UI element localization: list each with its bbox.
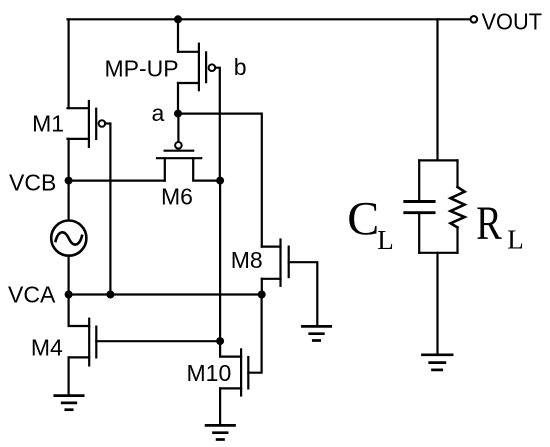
M6 drain stub — [193, 158, 220, 180]
wire M4 gate to M10 drain node — [96, 340, 220, 342]
svg-text:VOUT: VOUT — [482, 9, 543, 35]
svg-text:MP-UP: MP-UP — [105, 56, 179, 82]
svg-text:M6: M6 — [161, 184, 193, 210]
wire resistor bottom lead — [456, 228, 458, 253]
svg-text:VCA: VCA — [8, 282, 56, 308]
wire VCA down to M4 drain — [69, 295, 90, 327]
node dot M1 gate on VCA — [106, 291, 114, 299]
M4 gate bar — [95, 327, 97, 358]
transistor M6 (PMOS, horizontal) — [157, 142, 220, 181]
wire M10 source to ground — [219, 388, 221, 425]
wire VCB line to M6 source — [69, 180, 165, 182]
wire MP-UP source to node a — [177, 83, 179, 114]
M6 gate bubble — [175, 142, 182, 149]
M8 drain stub — [262, 246, 281, 248]
M6 channel bar — [157, 157, 201, 159]
wire AC source to VCA — [67, 257, 69, 295]
wire MP-UP drain from rail — [177, 19, 179, 52]
wire M1 drain to rail — [67, 19, 69, 108]
wire load to ground — [436, 253, 438, 355]
wire top supply rail — [68, 18, 471, 20]
wire M1 source down to VCB — [67, 139, 69, 181]
resistor RL — [451, 187, 465, 228]
M8 gate bar — [288, 247, 290, 278]
wire M1 gate to VCA — [105, 124, 110, 295]
wire M8 source to VCA — [261, 279, 263, 295]
AC voltage source — [51, 221, 86, 256]
wire node a to M6 gate bubble — [177, 114, 179, 142]
svg-text:C: C — [347, 193, 379, 246]
svg-text:R: R — [476, 197, 502, 250]
svg-text:L: L — [377, 225, 394, 255]
wire resistor top lead — [456, 160, 458, 187]
svg-text:L: L — [507, 225, 524, 255]
wire M8 gate to ground — [289, 262, 318, 326]
M10 gate bar — [247, 357, 249, 388]
transistor M8 (NMOS) — [262, 240, 289, 286]
wire capacitor top lead — [418, 160, 420, 200]
wire MP-UP gate (node b) down — [215, 68, 220, 181]
M6 gate bar — [165, 150, 194, 152]
MP-UP channel bar — [198, 44, 200, 90]
M8 channel bar — [279, 240, 281, 286]
transistor M1 (PMOS) — [68, 101, 106, 147]
node VCA dot — [65, 291, 73, 299]
ground (M10) — [206, 425, 234, 439]
node VCB dot — [65, 177, 73, 185]
M8 source stub — [262, 278, 281, 280]
MP-UP gate bar — [205, 52, 207, 82]
M1 gate bubble — [99, 120, 106, 127]
terminal VOUT — [471, 16, 478, 23]
node a dot — [174, 110, 182, 118]
svg-text:a: a — [152, 100, 165, 126]
wire node b down to M10 drain node — [219, 181, 221, 342]
node dot on rail (MP-UP drain junction) — [174, 15, 182, 23]
wire VCA line — [69, 293, 262, 295]
transistor M10 (NMOS) — [220, 349, 248, 395]
MP-UP drain stub — [178, 51, 199, 53]
sine wave — [56, 232, 82, 244]
svg-text:M10: M10 — [187, 360, 232, 386]
svg-text:M8: M8 — [231, 247, 263, 273]
transistor M4 (NMOS) — [69, 319, 97, 366]
MP-UP gate bubble — [209, 64, 216, 71]
wire node a to M8 drain — [178, 114, 262, 247]
ground (load) — [423, 355, 453, 370]
svg-text:VCB: VCB — [9, 170, 56, 196]
wire load top bracket — [419, 159, 457, 161]
svg-text:b: b — [234, 54, 247, 80]
ground (M8 gate) — [302, 326, 330, 340]
capacitor CL — [405, 202, 434, 213]
wire M4 source to ground — [67, 357, 69, 395]
M6 source stub — [164, 158, 166, 180]
wire load bottom bracket — [419, 252, 457, 254]
transistor MP-UP (PMOS) — [178, 44, 215, 90]
source circle — [51, 221, 86, 256]
M4 source stub — [69, 356, 90, 358]
svg-text:M4: M4 — [31, 335, 63, 361]
node dot b/M6 drain — [216, 177, 224, 185]
M1 drain stub — [68, 107, 89, 109]
M10 channel bar — [240, 349, 242, 395]
wire VCB to AC source — [67, 181, 69, 220]
node dot M8 source on VCA — [258, 291, 266, 299]
svg-text:M1: M1 — [32, 111, 64, 137]
wire M10 drain node down — [220, 341, 241, 357]
M10 source stub — [220, 387, 241, 389]
M1 gate bar — [95, 109, 97, 139]
ground (M4) — [55, 396, 83, 410]
M1 source stub — [68, 138, 89, 140]
M4 channel bar — [88, 319, 90, 366]
M1 channel bar — [88, 101, 90, 147]
MP-UP source stub — [178, 82, 199, 84]
wire VOUT down to load — [436, 19, 438, 160]
wire M10 gate to VCA node — [248, 295, 261, 373]
node dot M10 drain — [216, 337, 224, 345]
wire capacitor bottom lead — [418, 214, 420, 253]
